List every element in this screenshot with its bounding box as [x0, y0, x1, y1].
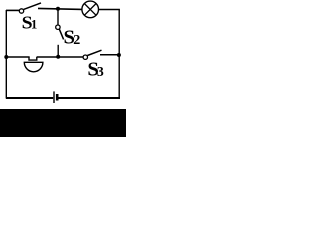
svg-text:2: 2 — [73, 33, 80, 48]
svg-text:3: 3 — [97, 64, 104, 79]
svg-text:1: 1 — [31, 18, 37, 32]
